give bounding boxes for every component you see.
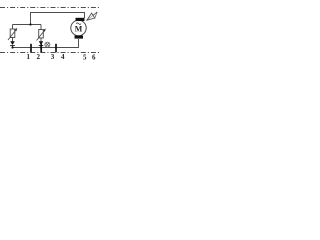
boundary dash-dot line top — [0, 7, 100, 9]
tilde above M — [76, 23, 81, 25]
svg-text:M: M — [75, 25, 83, 34]
svg-text:2: 2 — [36, 53, 40, 61]
svg-text:5: 5 — [83, 54, 87, 62]
svg-text:1: 1 — [26, 53, 30, 61]
svg-text:3: 3 — [51, 53, 55, 61]
diode D1 left — [10, 41, 15, 45]
terminal bar 1 — [30, 44, 32, 53]
brush bottom — [75, 36, 84, 39]
motor M — [71, 20, 86, 35]
wire left branch — [12, 25, 14, 48]
terminal bar 3 — [55, 44, 57, 53]
wire right branch — [40, 25, 42, 48]
arrow right — [37, 30, 45, 40]
svg-text:6: 6 — [92, 54, 96, 62]
pointer arrow top right — [87, 12, 97, 20]
node junction W1 — [29, 23, 31, 25]
boundary dash-dot line bottom — [0, 52, 100, 54]
node junction left — [11, 46, 13, 48]
node junction right — [40, 46, 42, 48]
diode D2 right — [39, 41, 44, 45]
terminal bar 2 — [40, 44, 42, 53]
wire W2 bottom — [13, 39, 79, 48]
arrow left — [8, 30, 16, 40]
wire top link — [31, 13, 85, 25]
resistor variable box left — [10, 29, 15, 38]
brush top — [76, 18, 85, 21]
resistor variable box right — [39, 30, 44, 39]
lamp — [45, 42, 50, 47]
svg-text:4: 4 — [61, 53, 65, 61]
wire W1 — [13, 24, 42, 26]
